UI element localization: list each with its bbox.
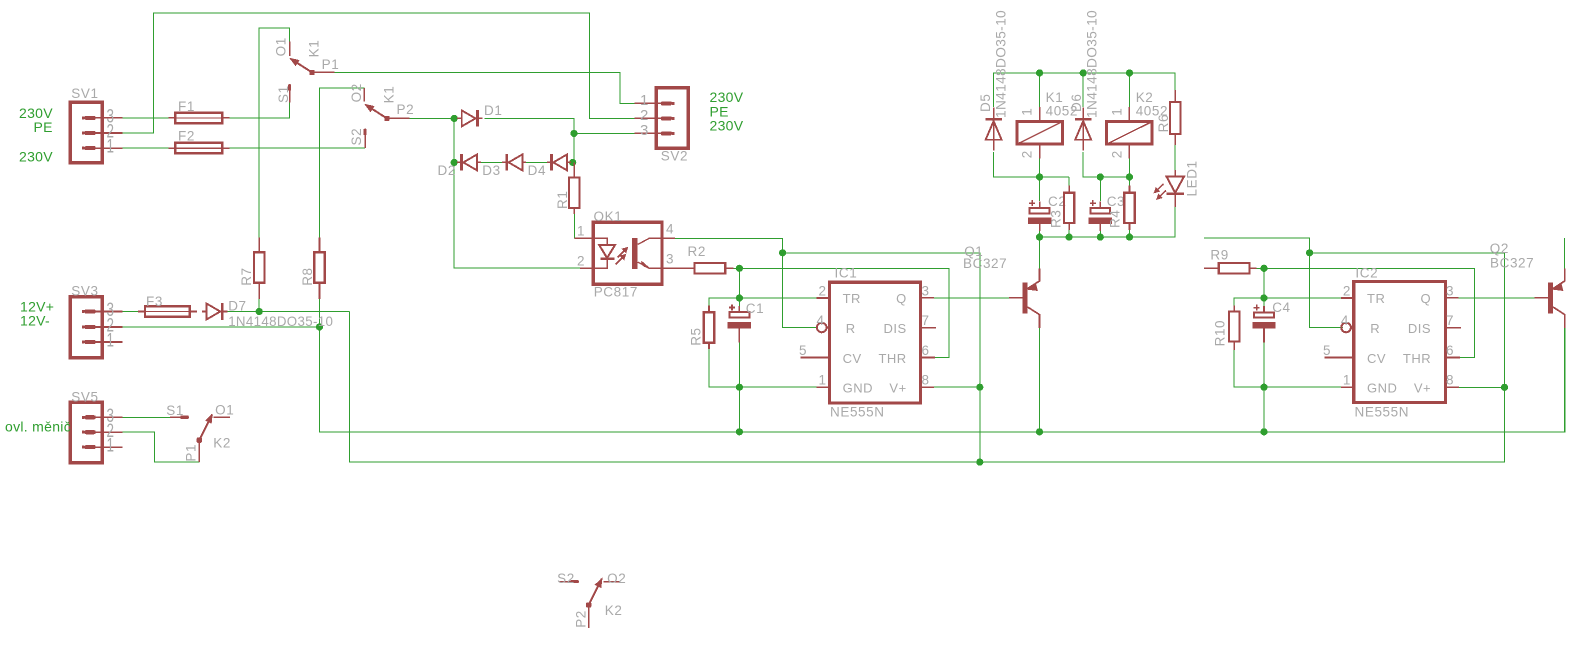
switch K1 pole1 contact O1 — [289, 41, 291, 56]
diode D7 — [202, 303, 228, 320]
diode D5 — [985, 108, 1002, 151]
wire R1 to OK1 pin1 — [573, 214, 575, 238]
wire C1 node down to bus1 — [738, 387, 740, 432]
labels switch K1 pole1 — [273, 37, 339, 103]
label R4 — [1107, 210, 1122, 228]
diode D3 — [502, 154, 526, 171]
label NE555N ic1 — [830, 405, 885, 420]
svg-text:GND: GND — [1367, 381, 1397, 396]
svg-text:DIS: DIS — [884, 321, 907, 336]
wire P2 to node A — [409, 117, 454, 119]
wire node C to V+ column right — [1310, 253, 1505, 387]
svg-text:OK1: OK1 — [594, 209, 623, 224]
label Q1 — [963, 244, 1007, 271]
resistor R5 — [704, 306, 714, 350]
svg-text:O2: O2 — [349, 83, 364, 102]
svg-text:BC327: BC327 — [1490, 256, 1534, 271]
value D5 — [992, 10, 1008, 118]
fuse F3 — [138, 306, 197, 316]
wire PE net: SV1 pin2 to SV2 pin2 — [123, 13, 635, 133]
svg-text:THR: THR — [878, 351, 906, 366]
svg-text:V+: V+ — [1414, 381, 1431, 396]
labels K2 — [1110, 90, 1169, 158]
net label 230V PE 230V right — [710, 89, 744, 134]
svg-text:PE: PE — [34, 119, 53, 135]
label F1 — [178, 99, 195, 114]
transistor Q1 — [1009, 268, 1040, 328]
value D7 — [228, 313, 333, 329]
svg-text:BC327: BC327 — [963, 256, 1007, 271]
diode D1 — [457, 110, 483, 127]
svg-text:4: 4 — [666, 222, 674, 237]
svg-text:O2: O2 — [607, 571, 626, 586]
svg-text:4: 4 — [816, 313, 824, 328]
label R6 — [1156, 114, 1171, 132]
svg-text:K2: K2 — [213, 436, 231, 451]
switch K1 pole2 contact O2 — [363, 88, 365, 102]
svg-text:R7: R7 — [239, 267, 254, 285]
capacitor C1 — [728, 305, 751, 343]
svg-text:R9: R9 — [1210, 248, 1228, 263]
optocoupler OK1 box — [574, 222, 675, 284]
label C2 — [1048, 194, 1066, 209]
wire R4 leads — [1129, 177, 1131, 237]
label R8 — [300, 267, 315, 285]
wire C1 top lead — [738, 298, 740, 306]
wire F2 to S2 contact — [229, 147, 365, 149]
wire stub to IC2 pin4 R — [1204, 238, 1343, 328]
wire relay top bus — [994, 73, 1176, 107]
transistor Q2 — [1534, 268, 1564, 328]
capacitor C4 — [1252, 305, 1275, 343]
relay coil K2 — [1107, 107, 1152, 158]
label SV2 — [640, 92, 688, 164]
svg-text:K1: K1 — [381, 86, 396, 104]
svg-text:2: 2 — [1020, 151, 1035, 159]
wire R3 leads — [1068, 177, 1070, 237]
wire bus2 supply rail — [350, 312, 1505, 463]
wire IC2 Q pin3 to Q2 base — [1459, 297, 1535, 299]
wire D6 anode row K2 — [1083, 152, 1129, 177]
resistor R10 — [1229, 306, 1239, 351]
svg-text:K2: K2 — [605, 603, 623, 618]
optocoupler OK1 light arrows — [616, 248, 628, 265]
label D3 — [482, 163, 500, 178]
ic IC2 box — [1325, 282, 1461, 403]
svg-text:S2: S2 — [557, 571, 575, 586]
svg-text:7: 7 — [1446, 313, 1454, 328]
svg-text:O1: O1 — [215, 403, 234, 418]
labels IC1 pins — [843, 291, 907, 396]
svg-text:R: R — [846, 321, 856, 336]
wire R2 out to THR loop — [734, 268, 950, 357]
resistor R6 — [1170, 90, 1180, 145]
relay coil K1 — [1017, 107, 1062, 158]
wire C1 bottom to GND net — [738, 342, 740, 387]
wire C4 top lead — [1263, 298, 1265, 306]
svg-text:NE555N: NE555N — [1355, 405, 1410, 420]
fuse F1 — [168, 113, 229, 123]
svg-text:R8: R8 — [300, 267, 315, 285]
wire OK1 pin4 to IC1 pin4 R — [675, 238, 817, 327]
wire O1 to R7 top — [259, 28, 289, 238]
resistor R9 — [1204, 263, 1256, 273]
svg-text:SV2: SV2 — [661, 149, 688, 164]
label IC2 — [1355, 266, 1378, 281]
net label ovl menic — [5, 419, 71, 435]
svg-text:1N4148DO35-10: 1N4148DO35-10 — [228, 313, 333, 329]
svg-text:CV: CV — [1367, 351, 1386, 366]
svg-text:D2: D2 — [438, 163, 456, 178]
wire R6 to LED1 — [1174, 145, 1176, 170]
svg-text:1N4148DO35-10: 1N4148DO35-10 — [1084, 10, 1100, 118]
label LED1 — [1185, 160, 1200, 196]
svg-text:R10: R10 — [1213, 320, 1228, 347]
svg-text:3: 3 — [640, 122, 648, 139]
switch K2 pole1 contact S1 — [170, 416, 189, 418]
svg-text:1: 1 — [1110, 108, 1125, 116]
wire D2-D3-D4 row — [454, 161, 573, 163]
label C1 — [746, 301, 764, 316]
label D4 — [528, 163, 546, 178]
resistor R1 — [569, 162, 579, 214]
label R1 — [555, 191, 570, 209]
wire D6 cathode to top bus — [1082, 73, 1084, 107]
labels IC2 numbers — [1323, 283, 1454, 387]
svg-text:NE555N: NE555N — [830, 405, 885, 420]
switch K2 pole1 lever and P1 — [197, 415, 212, 462]
svg-text:1: 1 — [818, 373, 826, 388]
wire GND net IC2 pin1 — [1234, 350, 1341, 387]
labels IC2 pins — [1367, 291, 1431, 396]
svg-text:IC2: IC2 — [1355, 266, 1378, 281]
wire Q2 emitter stub — [1564, 238, 1566, 269]
label C4 — [1272, 300, 1290, 315]
wire SV3 pin3 to F3 — [123, 311, 139, 313]
svg-text:1: 1 — [107, 331, 115, 352]
svg-text:8: 8 — [1446, 373, 1454, 388]
svg-text:5: 5 — [1323, 343, 1331, 358]
svg-text:R1: R1 — [555, 191, 570, 209]
wire IC2 V+ pin8 — [1459, 386, 1504, 388]
wire K2 pin1 to top bus — [1129, 73, 1131, 107]
svg-text:Q2: Q2 — [1490, 241, 1509, 256]
resistor R4 — [1124, 186, 1134, 231]
wire GND net IC1 pin1 — [709, 349, 817, 387]
net label 12V — [20, 298, 54, 328]
svg-text:TR: TR — [1367, 291, 1385, 306]
svg-text:6: 6 — [922, 343, 930, 358]
net label 230V PE 230V left — [19, 105, 53, 165]
label R7 — [239, 267, 254, 285]
wire node B to V+ column — [783, 253, 980, 462]
svg-text:F1: F1 — [178, 99, 195, 114]
switch K1 pole2 lever and P2 — [365, 105, 409, 121]
svg-text:1: 1 — [1343, 373, 1351, 388]
wire K1 pin2 down — [1039, 159, 1041, 178]
wire relay bottom bus bus3 — [1040, 207, 1176, 237]
led LED1 — [1154, 170, 1184, 207]
label SV1 — [71, 86, 114, 158]
value D6 — [1084, 10, 1100, 118]
svg-text:S1: S1 — [166, 403, 184, 418]
wire bus1 GND rail — [320, 327, 1566, 432]
switch K2 pole2 lever and P2 — [586, 579, 602, 628]
svg-text:1N4148DO35-10: 1N4148DO35-10 — [992, 10, 1008, 118]
label R2 — [688, 244, 706, 259]
fuse F2 — [168, 143, 229, 153]
labels IC1 numbers — [799, 283, 929, 387]
wire D1 cathode to SV2 pin3 — [485, 118, 635, 133]
wire R9 out to THR loop — [1256, 268, 1474, 357]
wire C4 node down to bus1 — [1263, 387, 1265, 432]
svg-text:C4: C4 — [1272, 300, 1290, 315]
diode D2 — [457, 154, 481, 171]
switch K1 pole2 contact S2 — [364, 129, 366, 149]
switch K1 pole1 lever and P1 — [290, 59, 334, 75]
wire TR net IC2 pin2 — [1234, 298, 1341, 306]
wire node A down to D2 — [453, 118, 455, 162]
svg-text:2: 2 — [577, 254, 585, 269]
label F3 — [146, 294, 163, 309]
diode D4 — [547, 154, 571, 171]
wire SV5 pin3 to S1 contact — [123, 416, 170, 418]
wire K2 pin2 down — [1129, 159, 1131, 178]
svg-text:THR: THR — [1403, 351, 1431, 366]
label SV5 — [71, 390, 114, 457]
resistor R7 — [254, 238, 264, 299]
wire P1 to SV2 pin1 — [335, 72, 635, 103]
svg-text:CV: CV — [843, 351, 862, 366]
wire R2 node down to TR node — [738, 268, 740, 298]
label IC1 — [835, 266, 858, 281]
svg-text:3: 3 — [1446, 283, 1454, 298]
wire Q1 collector down to bus1 — [1039, 328, 1041, 432]
diode D6 — [1075, 108, 1092, 151]
svg-text:S2: S2 — [349, 128, 364, 146]
svg-text:IC1: IC1 — [835, 266, 858, 281]
label D1 — [484, 103, 502, 118]
label C3 — [1107, 194, 1125, 209]
svg-text:R6: R6 — [1156, 114, 1171, 132]
capacitor C3 — [1089, 200, 1112, 231]
svg-text:P2: P2 — [574, 610, 589, 628]
svg-text:2: 2 — [818, 283, 826, 298]
label R10 — [1213, 320, 1228, 347]
svg-text:SV5: SV5 — [71, 390, 98, 405]
label D5 — [978, 94, 993, 112]
wire C4 bottom to GND net — [1263, 342, 1265, 387]
svg-text:12V-: 12V- — [20, 312, 50, 328]
svg-text:V+: V+ — [889, 381, 906, 396]
svg-text:K1: K1 — [306, 40, 321, 58]
svg-text:2: 2 — [1343, 283, 1351, 298]
wire C3 top — [1099, 177, 1101, 201]
connector SV5 — [70, 402, 122, 462]
svg-text:4: 4 — [1341, 313, 1349, 328]
svg-text:SV1: SV1 — [71, 86, 98, 101]
svg-text:ovl. měnič: ovl. měnič — [5, 419, 71, 435]
wire C2 bottom — [1039, 230, 1041, 237]
svg-text:SV3: SV3 — [71, 284, 98, 299]
switch K2 pole1 contact O1 — [213, 416, 230, 418]
wire K1 pin1 to top bus — [1039, 73, 1041, 107]
svg-text:7: 7 — [922, 313, 930, 328]
wire R8 top to O2 — [320, 88, 365, 238]
svg-text:Q: Q — [896, 291, 907, 306]
labels K1 — [1020, 90, 1078, 158]
wire SV1 pin1 to F2 — [123, 147, 169, 149]
wire R7 bottom — [258, 299, 260, 312]
wire SV2 pin3 node down to D4 — [573, 133, 575, 162]
capacitor C2 — [1028, 200, 1051, 231]
wire R8 bottom — [319, 299, 321, 327]
connector SV3 — [70, 297, 122, 358]
resistor R3 — [1064, 186, 1074, 231]
label D2 — [438, 163, 456, 178]
wire IC1 Q pin3 to Q1 base — [934, 297, 1014, 299]
optocoupler OK1 phototransistor — [632, 238, 662, 269]
svg-text:1: 1 — [1020, 108, 1035, 116]
wire Q1 emitter up to relay bus — [1039, 237, 1041, 268]
labels switch K2 pole1 — [166, 403, 234, 462]
resistor R2 — [675, 263, 734, 273]
svg-text:D7: D7 — [228, 298, 246, 313]
labels switch K2 pole2 — [557, 571, 626, 628]
svg-text:S1: S1 — [276, 85, 291, 103]
label D7 — [228, 298, 246, 313]
wire SV5 pin2 to P1 — [123, 432, 200, 462]
svg-text:P1: P1 — [184, 444, 199, 462]
svg-text:2: 2 — [1110, 151, 1125, 159]
label R3 — [1049, 210, 1064, 228]
svg-text:D4: D4 — [528, 163, 546, 178]
connector SV1 — [70, 102, 122, 163]
label Q2 — [1490, 241, 1534, 271]
label D6 — [1069, 94, 1084, 112]
label R5 — [688, 327, 703, 345]
svg-text:230V: 230V — [19, 149, 53, 165]
svg-text:D5: D5 — [978, 94, 993, 112]
svg-text:4052: 4052 — [1046, 104, 1078, 119]
wire TR net IC1 pin2 — [709, 298, 817, 306]
svg-text:1: 1 — [577, 224, 585, 239]
svg-text:C3: C3 — [1107, 194, 1125, 209]
svg-text:O1: O1 — [273, 37, 288, 56]
optocoupler OK1 LED — [593, 238, 615, 268]
svg-text:PC817: PC817 — [594, 284, 638, 299]
svg-text:5: 5 — [799, 343, 807, 358]
wire 12V+ net D7 to R7 node — [227, 311, 350, 313]
label F2 — [178, 128, 195, 143]
wire D5 anode row K1 — [994, 152, 1070, 177]
svg-text:D3: D3 — [482, 163, 500, 178]
wire R9 node down to TR node — [1263, 268, 1265, 298]
svg-text:D1: D1 — [484, 103, 502, 118]
svg-text:3: 3 — [666, 252, 674, 267]
label NE555N ic2 — [1355, 405, 1410, 420]
svg-text:R5: R5 — [688, 327, 703, 345]
ic IC1 box — [800, 282, 936, 403]
svg-text:TR: TR — [843, 291, 861, 306]
switch K2 pole2 contact S2 — [559, 581, 579, 583]
wire F1 to S1 contact — [229, 102, 289, 118]
svg-text:GND: GND — [843, 381, 873, 396]
svg-text:F2: F2 — [178, 128, 195, 143]
wire D2 node to OK1 pin2 — [454, 162, 580, 268]
svg-text:8: 8 — [922, 373, 930, 388]
switch K2 pole2 contact O2 — [604, 581, 621, 583]
svg-text:P2: P2 — [397, 102, 415, 117]
wire Q2 collector to bus1 — [1564, 328, 1566, 432]
wire C2 top — [1039, 177, 1041, 201]
svg-text:6: 6 — [1446, 343, 1454, 358]
wire SV1 pin3 to F1 — [123, 117, 169, 119]
svg-text:R: R — [1370, 321, 1380, 336]
connector SV2 — [634, 88, 688, 148]
svg-text:R4: R4 — [1107, 210, 1122, 228]
svg-text:R3: R3 — [1049, 210, 1064, 228]
label R9 — [1210, 248, 1228, 263]
svg-text:F3: F3 — [146, 294, 163, 309]
switch K1 pole1 contact S1 — [289, 84, 291, 102]
labels switch K1 pole2 — [349, 83, 414, 145]
svg-text:LED1: LED1 — [1185, 160, 1200, 196]
svg-text:1: 1 — [107, 436, 115, 457]
svg-text:DIS: DIS — [1408, 321, 1431, 336]
wire 12V- net SV3 pin2 to R8 bottom — [123, 326, 320, 328]
labels OK1 — [577, 209, 674, 299]
wire IC1 V+ pin8 — [934, 386, 980, 388]
svg-text:Q: Q — [1420, 291, 1431, 306]
svg-text:1: 1 — [107, 137, 115, 158]
svg-text:230V: 230V — [710, 118, 744, 134]
label SV3 — [71, 284, 114, 352]
wire C3 bottom — [1099, 230, 1101, 237]
svg-text:P1: P1 — [322, 57, 340, 72]
resistor R8 — [314, 238, 324, 299]
svg-text:3: 3 — [922, 283, 930, 298]
svg-text:C1: C1 — [746, 301, 764, 316]
svg-text:R2: R2 — [688, 244, 706, 259]
